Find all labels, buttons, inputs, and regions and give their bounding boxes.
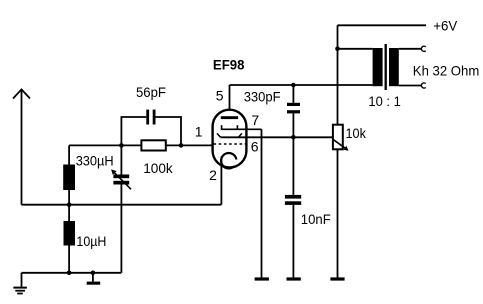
- wire bottom ground rail: [22, 272, 122, 274]
- tube envelope U1: [213, 110, 247, 168]
- wire cathode lead: [220, 157, 222, 205]
- svg-text:Kh 32 Ohm: Kh 32 Ohm: [413, 63, 480, 79]
- svg-text:EF98: EF98: [213, 56, 245, 72]
- svg-text:10µH: 10µH: [76, 233, 106, 249]
- node junction +6V/primary: [335, 47, 340, 52]
- capacitor 330pF: [244, 85, 300, 137]
- wire grid rail: [69, 144, 212, 146]
- terminal top: [421, 46, 425, 51]
- grid g1 dashed: [214, 143, 246, 145]
- svg-text:2: 2: [209, 167, 217, 183]
- transformer T1: [338, 44, 426, 109]
- svg-text:+6V: +6V: [433, 18, 458, 34]
- transformer secondary winding: [389, 48, 399, 86]
- svg-text:10 : 1: 10 : 1: [368, 93, 401, 109]
- wire primary top lead: [338, 48, 373, 50]
- capacitor 10nF: [285, 137, 331, 277]
- ground: [13, 288, 27, 294]
- node junction 10uH bottom: [67, 271, 72, 276]
- node junction 330uH/10uH: [67, 202, 72, 207]
- node junction grid rail right: [179, 143, 184, 148]
- wire +6V rail: [338, 24, 427, 26]
- capacitor variable tuning: [111, 145, 131, 272]
- anode plate: [221, 116, 238, 119]
- svg-text:330µH: 330µH: [76, 153, 114, 169]
- wire pot to ground: [337, 149, 339, 277]
- cathode curl: [221, 153, 236, 168]
- grid g2: [221, 125, 262, 129]
- wire +6V vertical: [337, 25, 339, 124]
- inductor 10uH: [64, 205, 107, 273]
- svg-text:1: 1: [195, 124, 203, 140]
- capacitor 56pF: [121, 84, 181, 146]
- ground bar 10nF: [287, 277, 301, 280]
- svg-text:7: 7: [251, 112, 259, 128]
- node junction g3/330pF/10nF: [291, 135, 296, 140]
- svg-text:10nF: 10nF: [301, 211, 331, 227]
- wire secondary top lead: [399, 48, 422, 50]
- ground bar pot: [330, 277, 344, 280]
- tube EF98: [195, 56, 333, 182]
- anode lead pin 5: [229, 85, 231, 111]
- transformer primary winding: [373, 48, 383, 86]
- node junction grid rail left: [119, 143, 124, 148]
- ground bar pin7: [255, 277, 269, 280]
- wire anode line: [230, 84, 373, 86]
- svg-text:56pF: 56pF: [136, 84, 166, 100]
- svg-text:5: 5: [216, 88, 224, 104]
- potentiometer 10k: [333, 125, 367, 151]
- grid g3: [217, 133, 333, 137]
- inductor 330uH: [63, 145, 113, 204]
- wire pin7 to ground: [261, 129, 263, 277]
- svg-text:6: 6: [251, 139, 259, 155]
- terminal bottom: [421, 83, 425, 88]
- svg-text:10k: 10k: [346, 125, 367, 141]
- antenna: [13, 89, 30, 205]
- transformer core: [385, 44, 387, 90]
- svg-text:100k: 100k: [143, 160, 173, 176]
- wire secondary bottom lead: [399, 85, 422, 87]
- wire ground rail drop: [21, 273, 23, 287]
- resistor 100k: [141, 140, 173, 176]
- ground chassis stub: [87, 271, 101, 285]
- wire antenna to cathode: [22, 204, 222, 206]
- svg-text:330pF: 330pF: [244, 88, 281, 104]
- node junction anode/330pF: [291, 83, 296, 88]
